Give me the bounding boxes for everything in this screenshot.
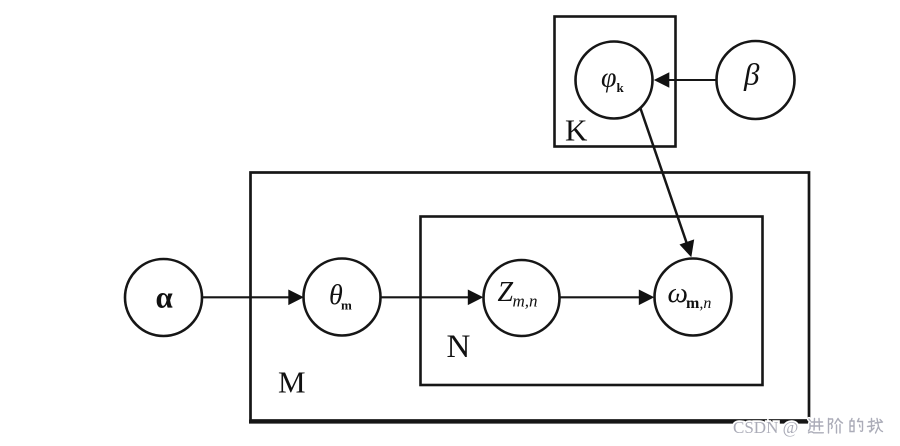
glyph wo (868, 419, 883, 434)
node phi_k (576, 42, 653, 119)
arrow beta to phi (654, 72, 717, 88)
svg-text:CSDN @: CSDN @ (733, 418, 798, 437)
svg-text:m,n: m,n (513, 292, 538, 311)
glyph jie (829, 419, 843, 434)
svg-text:α: α (156, 280, 173, 315)
node omega_mn (655, 259, 732, 336)
node beta (717, 41, 795, 119)
glyph jin (halo) (809, 419, 824, 433)
node Z_mn (484, 260, 560, 336)
node alpha (125, 259, 202, 336)
svg-text:m,n: m,n (686, 295, 711, 312)
plate M (251, 173, 810, 421)
arrow Z to omega (560, 290, 655, 306)
svg-text:ω: ω (668, 277, 688, 309)
arrow alpha to theta (202, 290, 304, 306)
plate N (421, 217, 763, 386)
plate M bottom edge (thicker) (249, 420, 810, 424)
arrow theta to Z (381, 290, 484, 306)
watermark CSDN @jinjiedewo (733, 418, 883, 437)
arrow phi to omega (diagonal) (640, 107, 694, 257)
node theta_m (304, 259, 381, 336)
svg-text:Z: Z (498, 277, 514, 308)
svg-text:m: m (341, 298, 352, 313)
svg-text:φ: φ (601, 62, 617, 93)
svg-text:β: β (743, 56, 760, 91)
glyph de (850, 419, 863, 432)
svg-text:N: N (447, 329, 471, 365)
svg-text:k: k (617, 80, 625, 95)
svg-text:K: K (565, 113, 588, 148)
svg-text:M: M (278, 365, 306, 400)
plate K (555, 17, 676, 147)
